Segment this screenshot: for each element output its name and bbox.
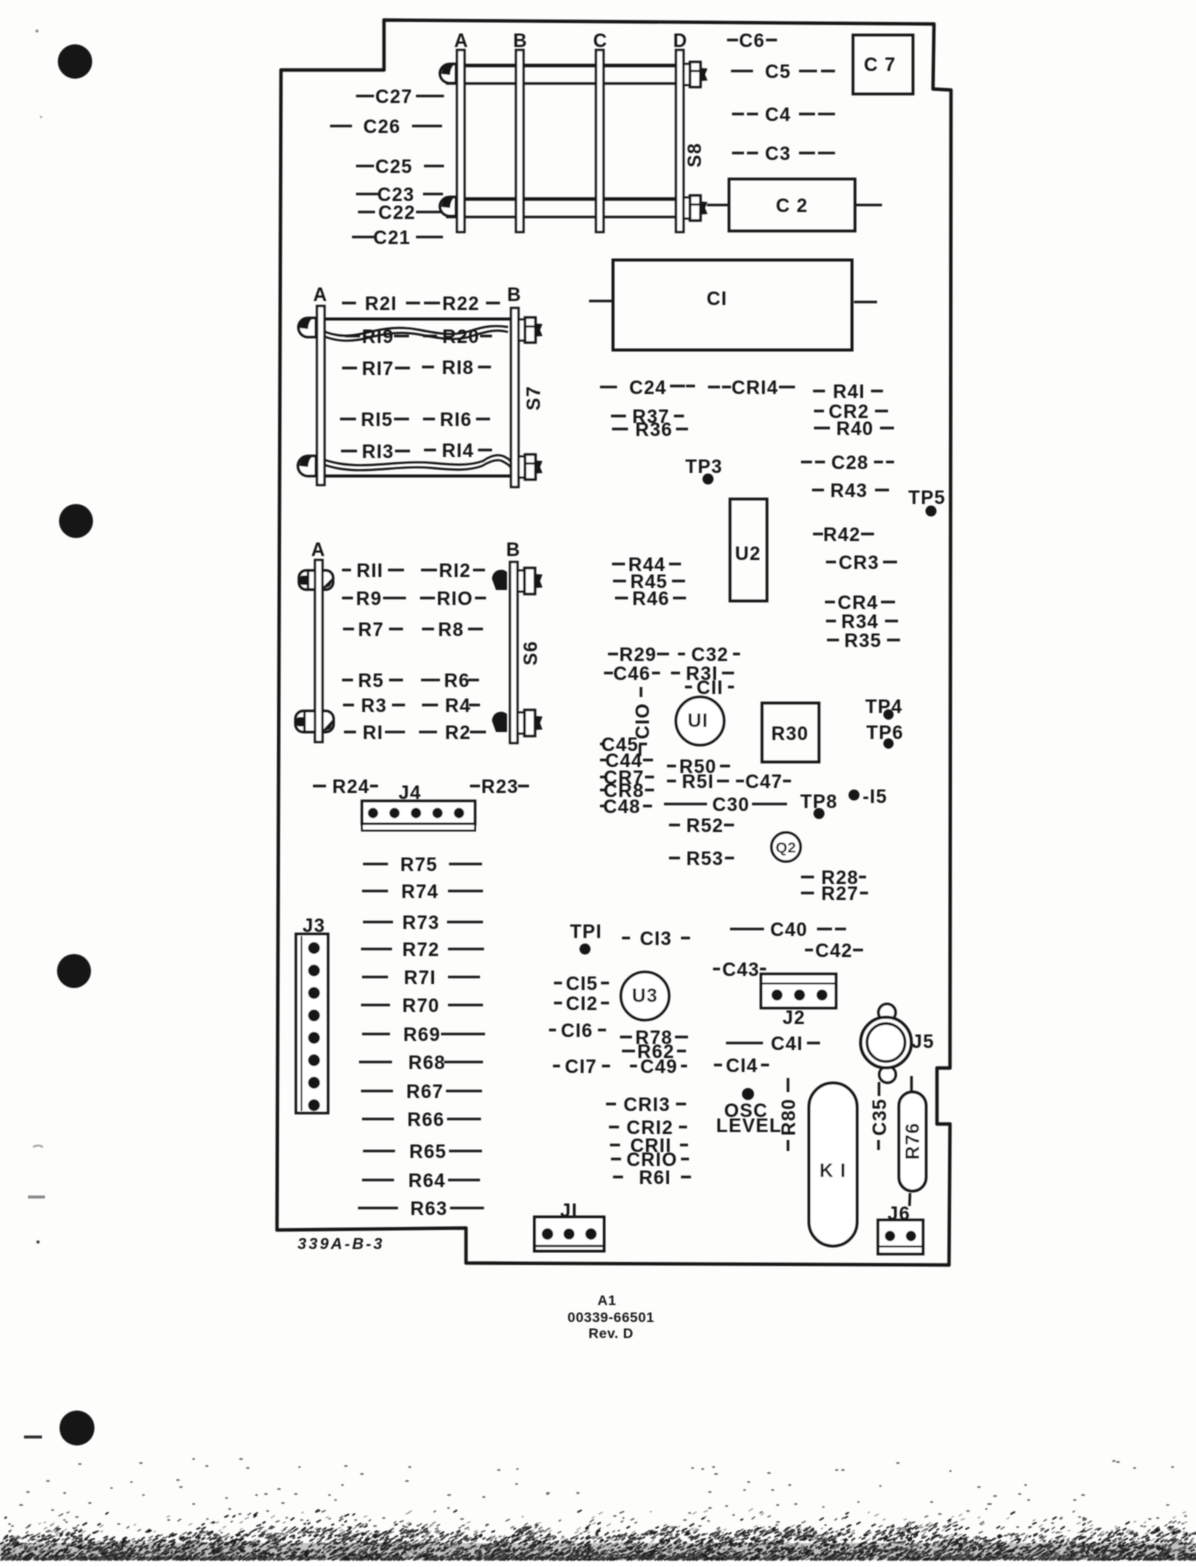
S7 top rail and wavy wire: [316, 319, 511, 341]
nut right bottom rail: [684, 196, 708, 221]
svg-text:RI2: RI2: [439, 561, 471, 582]
stray marks left margin: [24, 30, 45, 1438]
svg-text:C6: C6: [739, 31, 765, 52]
diode CR8: [600, 781, 654, 802]
resistor R22: [424, 294, 500, 315]
resistor R9: [342, 589, 406, 610]
diode CR3: [826, 553, 897, 574]
resistor R29: [608, 645, 669, 666]
switch S8 rail bottom: [446, 199, 700, 217]
resistor block S7 bar B: [511, 308, 519, 487]
svg-text:R6: R6: [444, 671, 470, 692]
capacitor C35: [870, 1082, 891, 1150]
resistor R12: [421, 561, 485, 582]
switch bar C: [596, 50, 604, 232]
svg-text:R69: R69: [403, 1025, 441, 1046]
svg-text:C43: C43: [722, 960, 760, 981]
resistor R35: [827, 631, 900, 652]
diode CR2: [814, 402, 888, 423]
resistor R70: [361, 996, 483, 1017]
svg-text:C30: C30: [712, 795, 750, 816]
capacitor C15: [554, 974, 609, 995]
svg-text:C5: C5: [765, 62, 791, 83]
resistor R67: [361, 1082, 482, 1103]
test point TP3: [685, 457, 723, 485]
resistor R4: [422, 696, 480, 717]
resistor R78: [620, 1028, 688, 1049]
svg-text:R7: R7: [358, 620, 384, 641]
S7 cap left bottom: [298, 456, 316, 476]
svg-text:R24: R24: [332, 777, 370, 798]
resistor R80: [779, 1078, 800, 1151]
resistor R43: [812, 481, 889, 502]
svg-text:R72: R72: [402, 940, 440, 961]
S7 cap left top: [299, 318, 317, 337]
nut right top rail: [684, 62, 708, 87]
resistor R16: [423, 410, 490, 431]
resistor R40: [814, 419, 894, 440]
svg-text:R40: R40: [836, 419, 874, 440]
svg-text:CRI4: CRI4: [732, 378, 779, 399]
resistor R42: [813, 525, 874, 546]
capacitor C2: [707, 179, 882, 231]
resistor R15: [340, 410, 409, 431]
S6 cap left top: [299, 571, 333, 590]
svg-text:C: C: [593, 31, 607, 52]
capacitor C26: [330, 117, 442, 138]
svg-text:R74: R74: [401, 882, 439, 903]
resistor block S6 bar A: [315, 560, 323, 742]
svg-text:R75: R75: [400, 855, 438, 876]
capacitor C16: [549, 1021, 606, 1042]
svg-text:R5: R5: [358, 671, 384, 692]
resistor R69: [362, 1025, 485, 1046]
svg-text:C 2: C 2: [776, 196, 808, 217]
scan noise band: [0, 1543, 1196, 1560]
resistor R66: [362, 1110, 481, 1131]
svg-text:R42: R42: [823, 525, 861, 546]
svg-text:TP5: TP5: [908, 488, 946, 509]
S7 nut right top: [519, 318, 543, 343]
svg-text:-I5: -I5: [863, 787, 888, 808]
svg-text:RI6: RI6: [440, 410, 472, 431]
IC U2: [730, 499, 767, 601]
svg-text:B: B: [507, 285, 521, 306]
svg-text:339A-B-3: 339A-B-3: [298, 1236, 385, 1253]
resistor R8: [422, 620, 483, 641]
diode CR11: [610, 1136, 688, 1157]
svg-text:CI7: CI7: [565, 1057, 597, 1078]
resistor R61: [613, 1168, 691, 1189]
resistor R30: [762, 703, 819, 762]
svg-text:R65: R65: [409, 1142, 447, 1163]
capacitor C28: [801, 453, 894, 474]
svg-text:TP3: TP3: [685, 457, 723, 478]
resistor R41: [813, 382, 883, 403]
rail cap left bottom: [440, 197, 456, 216]
capacitor C1: [589, 260, 877, 350]
capacitor C49: [630, 1057, 687, 1078]
svg-text:C47: C47: [745, 772, 783, 793]
capacitor C48: [600, 797, 652, 818]
switch bar D: [676, 50, 684, 232]
resistor R3: [343, 696, 405, 717]
diode CR13: [606, 1095, 686, 1116]
svg-text:R23: R23: [481, 777, 519, 798]
svg-text:R53: R53: [686, 849, 724, 870]
resistor R24: [313, 777, 378, 798]
svg-text:S8: S8: [685, 142, 706, 167]
capacitor C3: [732, 144, 835, 165]
capacitor C47: [736, 772, 791, 793]
resistor block S6 bar B: [510, 562, 518, 743]
svg-text:C4I: C4I: [771, 1034, 803, 1055]
svg-text:R20: R20: [442, 327, 480, 348]
resistor R31: [671, 664, 734, 685]
switch bar A: [457, 50, 465, 232]
test point TP6: [866, 723, 904, 749]
connector J1: [535, 1201, 605, 1251]
svg-text:C3: C3: [765, 144, 791, 165]
svg-text:CI3: CI3: [640, 929, 672, 950]
svg-text:CI5: CI5: [566, 974, 598, 995]
diode CR7: [600, 768, 654, 789]
node -15: [849, 787, 888, 808]
resistor R11: [342, 561, 404, 582]
S7 nut right bottom: [519, 455, 543, 480]
switch S8 rail top: [446, 66, 700, 84]
svg-text:R76: R76: [903, 1122, 924, 1160]
capacitor C42: [805, 941, 863, 962]
resistor R20: [423, 327, 492, 348]
svg-text:R80: R80: [779, 1098, 800, 1136]
transistor Q2: [772, 833, 801, 862]
resistor R52: [669, 816, 734, 837]
resistor R53: [669, 849, 734, 870]
connector J6: [878, 1204, 923, 1254]
svg-text:RI4: RI4: [442, 441, 474, 462]
capacitor C7: [853, 35, 913, 94]
svg-text:A: A: [311, 540, 325, 561]
resistor R72: [361, 940, 484, 961]
diode CR4: [825, 593, 895, 614]
svg-text:RI7: RI7: [362, 359, 394, 380]
capacitor C6: [727, 31, 777, 52]
svg-text:R67: R67: [406, 1082, 444, 1103]
svg-text:TPI: TPI: [570, 922, 602, 943]
svg-text:C49: C49: [640, 1057, 678, 1078]
svg-text:CI2: CI2: [566, 994, 598, 1015]
connector J5: [861, 1004, 935, 1083]
resistor R74: [362, 882, 483, 903]
svg-text:R70: R70: [402, 996, 440, 1017]
svg-text:C27: C27: [375, 87, 413, 108]
relay K1: [809, 1083, 857, 1246]
capacitor C22: [358, 203, 441, 224]
svg-text:R4: R4: [445, 696, 471, 717]
capacitor C13: [622, 929, 690, 950]
capacitor C45: [600, 735, 647, 756]
punch hole 4: [60, 1411, 95, 1446]
resistor R65: [363, 1142, 482, 1163]
resistor R37: [611, 407, 684, 428]
resistor R7: [343, 620, 403, 641]
svg-text:RI3: RI3: [362, 442, 394, 463]
svg-text:R4I: R4I: [833, 382, 865, 403]
svg-text:C24: C24: [629, 378, 667, 399]
svg-text:C32: C32: [691, 645, 729, 666]
svg-text:R9: R9: [356, 589, 382, 610]
svg-text:S7: S7: [524, 385, 545, 410]
resistor R73: [363, 913, 483, 934]
connector J3: [296, 916, 328, 1113]
capacitor C44: [600, 751, 653, 772]
svg-text:C22: C22: [378, 203, 416, 224]
capacitor C41: [726, 1034, 820, 1055]
capacitor C40: [730, 920, 846, 941]
punch hole 2: [59, 504, 93, 538]
resistor R46: [615, 589, 686, 610]
svg-text:CI: CI: [707, 289, 728, 310]
svg-text:J2: J2: [783, 1008, 806, 1029]
IC U3: [621, 972, 669, 1020]
svg-text:RIO: RIO: [437, 589, 473, 610]
resistor R19: [345, 327, 409, 348]
resistor R14: [424, 441, 492, 462]
resistor R17: [342, 359, 410, 380]
resistor R13: [341, 442, 410, 463]
S7 bottom rail and wavy wire: [316, 455, 513, 476]
test point TP1: [570, 922, 602, 955]
resistor R21: [342, 294, 420, 315]
svg-text:C35: C35: [870, 1098, 891, 1136]
svg-text:C40: C40: [770, 920, 808, 941]
svg-text:R43: R43: [830, 481, 868, 502]
svg-text:R64: R64: [408, 1171, 446, 1192]
svg-text:R6I: R6I: [639, 1168, 671, 1189]
svg-text:C25: C25: [375, 157, 413, 178]
resistor block S7 bar A: [317, 306, 325, 485]
resistor R28: [801, 868, 866, 889]
svg-text:U2: U2: [735, 544, 761, 565]
punch hole 3: [57, 954, 91, 988]
capacitor C17: [553, 1057, 610, 1078]
svg-text:R46: R46: [632, 589, 670, 610]
resistor R63: [358, 1199, 484, 1220]
svg-text:C21: C21: [373, 228, 411, 249]
svg-text:CR4: CR4: [838, 593, 879, 614]
svg-text:R5I: R5I: [682, 772, 714, 793]
svg-text:R22: R22: [442, 294, 480, 315]
capacitor C23: [356, 185, 443, 206]
svg-text:C48: C48: [603, 797, 641, 818]
rail cap left top: [440, 64, 456, 83]
scattered specks above band: [9, 1459, 1186, 1528]
resistor R6: [421, 671, 479, 692]
svg-text:CI6: CI6: [561, 1021, 593, 1042]
capacitor C5: [731, 62, 835, 83]
test point TP4: [865, 697, 903, 720]
resistor R51: [667, 772, 729, 793]
diode CR10: [611, 1150, 689, 1171]
OSC LEVEL adjustment: [716, 1088, 782, 1137]
S6 cap left bottom: [296, 711, 334, 732]
capacitor C12: [554, 994, 609, 1015]
svg-text:R34: R34: [841, 612, 879, 633]
svg-text:CRI3: CRI3: [624, 1095, 671, 1116]
svg-text:R27: R27: [821, 884, 859, 905]
svg-text:RI9: RI9: [362, 327, 394, 348]
board outline: [277, 20, 951, 1265]
capacitor C25: [356, 157, 444, 178]
svg-text:R35: R35: [844, 631, 882, 652]
svg-text:R68: R68: [408, 1053, 446, 1074]
resistor R75: [363, 855, 482, 876]
resistor R34: [826, 612, 898, 633]
svg-text:D: D: [673, 31, 687, 52]
resistor R27: [801, 884, 868, 905]
svg-text:CIO: CIO: [633, 703, 654, 739]
svg-text:A: A: [454, 31, 468, 52]
capacitor C32: [678, 645, 740, 666]
svg-text:K I: K I: [820, 1161, 847, 1182]
resistor R36: [612, 420, 688, 441]
capacitor C24: [600, 378, 695, 399]
capacitor C21: [352, 228, 443, 249]
svg-text:A1: A1: [598, 1292, 617, 1308]
switch bar B: [516, 50, 524, 232]
resistor R44: [612, 555, 681, 576]
svg-text:C4: C4: [765, 105, 791, 126]
S6 nut right bottom: [492, 710, 543, 736]
resistor R62: [622, 1042, 686, 1063]
diode CR12: [609, 1118, 687, 1139]
svg-text:RII: RII: [357, 561, 384, 582]
svg-text:C42: C42: [815, 941, 853, 962]
svg-text:B: B: [506, 540, 520, 561]
svg-text:Q2: Q2: [776, 839, 797, 856]
svg-text:R73: R73: [402, 913, 440, 934]
resistor R50: [667, 757, 730, 778]
capacitor C14: [714, 1056, 769, 1077]
svg-text:R2I: R2I: [365, 294, 397, 315]
test point TP8: [800, 792, 838, 819]
capacitor C11: [685, 678, 734, 699]
svg-text:R3: R3: [361, 696, 387, 717]
resistor R45: [613, 572, 685, 593]
capacitor C46: [604, 664, 660, 685]
resistor R10: [420, 589, 486, 610]
resistor R71: [362, 968, 480, 989]
resistor R68: [359, 1053, 483, 1074]
svg-text:R7I: R7I: [404, 968, 436, 989]
svg-text:C 7: C 7: [864, 55, 896, 76]
test point TP5: [908, 488, 946, 517]
diode CR14: [708, 378, 795, 399]
svg-text:RI8: RI8: [442, 358, 474, 379]
svg-text:R29: R29: [619, 645, 657, 666]
svg-text:RI: RI: [363, 723, 384, 744]
svg-text:RI5: RI5: [361, 410, 393, 431]
S6 nut right top: [492, 568, 543, 594]
svg-text:R66: R66: [407, 1110, 445, 1131]
resistor R2: [419, 723, 486, 744]
svg-text:J5: J5: [912, 1032, 935, 1053]
capacitor C10: [633, 687, 654, 756]
IC U1: [676, 697, 724, 745]
svg-text:R52: R52: [686, 816, 724, 837]
resistor R1: [344, 723, 405, 744]
svg-text:C46: C46: [613, 664, 651, 685]
svg-text:R63: R63: [410, 1199, 448, 1220]
svg-text:CI4: CI4: [726, 1056, 758, 1077]
svg-text:C28: C28: [831, 453, 869, 474]
capacitor C43: [713, 960, 766, 981]
svg-text:UI: UI: [688, 711, 709, 732]
capacitor C27: [356, 87, 444, 108]
svg-text:R30: R30: [771, 724, 809, 745]
punch hole 1: [58, 44, 92, 78]
svg-text:U3: U3: [632, 986, 658, 1007]
svg-text:Rev. D: Rev. D: [589, 1325, 634, 1341]
svg-text:R8: R8: [438, 620, 464, 641]
svg-text:CR3: CR3: [839, 553, 880, 574]
svg-text:C26: C26: [363, 117, 401, 138]
svg-text:S6: S6: [521, 640, 542, 665]
svg-text:00339-66501: 00339-66501: [568, 1309, 655, 1325]
svg-text:A: A: [313, 285, 327, 306]
resistor R76: [899, 1076, 926, 1206]
resistor R64: [362, 1171, 480, 1192]
resistor R18: [422, 358, 491, 379]
svg-text:R2: R2: [445, 723, 471, 744]
svg-text:B: B: [513, 31, 527, 52]
resistor R5: [342, 671, 403, 692]
svg-text:LEVEL: LEVEL: [716, 1116, 782, 1137]
connector J2: [761, 974, 836, 1029]
capacitor C30: [664, 795, 787, 816]
capacitor C4: [732, 105, 835, 126]
connector J4: [362, 783, 475, 831]
svg-text:R36: R36: [635, 420, 673, 441]
resistor R23: [470, 777, 529, 798]
